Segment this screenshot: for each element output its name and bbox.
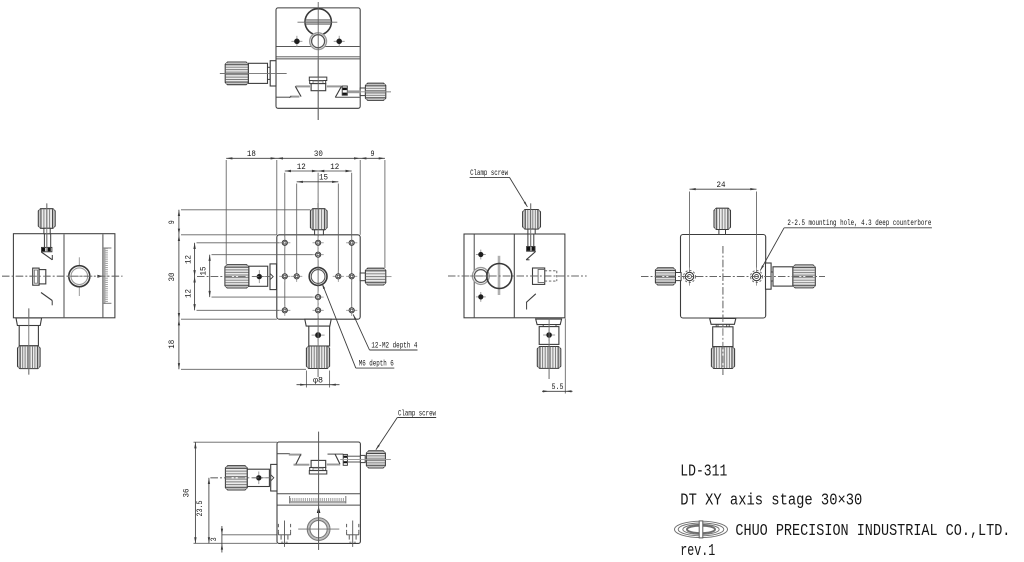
svg-text:12: 12 (183, 255, 193, 264)
svg-text:18: 18 (247, 149, 256, 159)
svg-text:φ8: φ8 (313, 376, 323, 386)
svg-text:15: 15 (319, 173, 328, 183)
svg-text:DT XY axis stage 30×30: DT XY axis stage 30×30 (680, 491, 862, 510)
svg-text:12: 12 (297, 162, 306, 172)
svg-text:9: 9 (371, 149, 375, 159)
svg-text:Clamp screw: Clamp screw (398, 409, 436, 419)
svg-text:5.5: 5.5 (552, 382, 564, 392)
svg-text:15: 15 (199, 267, 209, 276)
svg-text:3: 3 (209, 537, 219, 541)
svg-text:9: 9 (167, 220, 177, 224)
svg-text:23.5: 23.5 (195, 501, 205, 517)
svg-text:18: 18 (167, 340, 177, 349)
svg-text:24: 24 (717, 180, 726, 190)
svg-text:30: 30 (167, 273, 177, 282)
svg-text:CHUO PRECISION INDUSTRIAL CO.,: CHUO PRECISION INDUSTRIAL CO.,LTD. (735, 521, 1010, 540)
svg-text:30: 30 (314, 149, 323, 159)
svg-text:2-2.5 mounting hole, 4.3 deep: 2-2.5 mounting hole, 4.3 deep counterbor… (787, 218, 931, 228)
svg-text:12-M2 depth 4: 12-M2 depth 4 (371, 341, 417, 351)
svg-text:12: 12 (330, 162, 339, 172)
svg-text:M6 depth 6: M6 depth 6 (359, 359, 394, 369)
svg-text:LD-311: LD-311 (680, 462, 727, 481)
svg-text:Clamp screw: Clamp screw (470, 168, 508, 178)
svg-text:12: 12 (183, 289, 193, 298)
svg-text:rev.1: rev.1 (680, 541, 715, 560)
svg-text:36: 36 (181, 489, 191, 498)
